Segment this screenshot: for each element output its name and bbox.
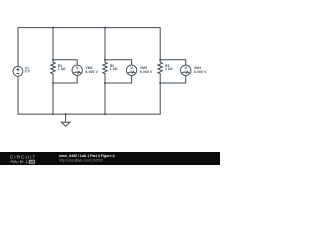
svg-text:6.000 V: 6.000 V: [194, 70, 207, 74]
node dot top rail / R2: [104, 27, 106, 29]
node dot ground: [65, 113, 67, 115]
node dot loop3 bottom: [159, 82, 161, 84]
svg-text:1 kΩ: 1 kΩ: [110, 67, 118, 71]
footer bar: [0, 152, 220, 165]
voltmeter VM3: [126, 65, 136, 75]
voltmeter VM2: [72, 65, 82, 75]
wire loop VM3: [105, 60, 132, 65]
wire branch R2 top: [104, 28, 106, 60]
node dot loop2 bottom: [104, 82, 106, 84]
node dot loop3 top: [159, 59, 161, 61]
svg-text:1 kΩ: 1 kΩ: [58, 67, 66, 71]
node dot top rail / R1: [52, 27, 54, 29]
wire top rail: [18, 28, 160, 67]
svg-text:V: V: [130, 65, 133, 70]
ground: [61, 114, 70, 126]
svg-text:6.000 V: 6.000 V: [140, 70, 153, 74]
node dot loop2 top: [104, 59, 106, 61]
node dot bottom rail / R1: [52, 113, 54, 115]
resistor R1: [51, 60, 55, 83]
node dot bottom rail / R2: [104, 113, 106, 115]
svg-text:V: V: [76, 65, 79, 70]
svg-text:1 kΩ: 1 kΩ: [165, 67, 173, 71]
svg-text:AB: AB: [30, 160, 35, 164]
wire branch R2 bottom: [104, 83, 106, 114]
svg-text:6 V: 6 V: [25, 70, 31, 74]
node dot loop1 top: [52, 59, 54, 61]
voltmeter VM4: [181, 65, 191, 75]
wire branch R1 bottom: [52, 83, 54, 114]
CircuitLab logo: [10, 155, 36, 165]
svg-text:6.000 V: 6.000 V: [86, 70, 99, 74]
resistor R2: [103, 60, 107, 83]
wire branch R1 top: [52, 28, 54, 60]
wire loop VM4: [160, 60, 186, 65]
svg-text:http://circuitlab.com/c2xf26f: http://circuitlab.com/c2xf26f: [59, 159, 103, 163]
svg-text:V: V: [184, 65, 187, 70]
resistor R3: [158, 60, 162, 83]
wire loop VM2: [53, 60, 77, 65]
node dot loop1 bottom: [52, 82, 54, 84]
wire bottom rail: [18, 76, 160, 114]
voltage source V1: [13, 66, 23, 76]
